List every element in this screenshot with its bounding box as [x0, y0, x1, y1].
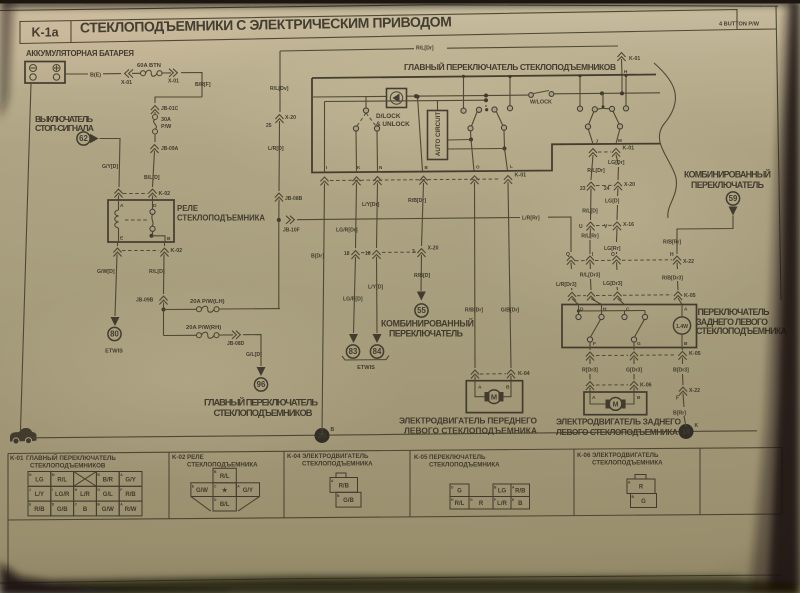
- junction JB-09A: [150, 145, 158, 153]
- K-05 bottom row: [589, 348, 591, 351]
- B[Dr3] to ground 18: [679, 387, 687, 395]
- fuse 30A P/W: [153, 115, 158, 120]
- relay connector K-02 bottom: [117, 242, 119, 246]
- K-05 row dashed: [577, 295, 586, 297]
- car icon: [10, 428, 37, 442]
- connector K-06: [586, 382, 594, 390]
- internal bus lower: [325, 100, 487, 101]
- front motor symbol: [485, 392, 490, 401]
- connector X-20 pin 25: [275, 115, 283, 123]
- connector K-04: [471, 370, 479, 378]
- AUTO CIRCUIT feed from bus: [437, 101, 439, 111]
- junction JB-09B: [159, 296, 167, 304]
- left rocker switch unit: [463, 76, 465, 108]
- W/LOCK switch: [529, 93, 534, 98]
- right rocker switch unit (J M): [579, 76, 581, 106]
- connector X-01 left: [125, 69, 133, 77]
- ground 25: [315, 428, 330, 443]
- right page border rule: [776, 6, 781, 300]
- relay switch: [152, 200, 154, 209]
- legend K-01 pin grid: [28, 472, 51, 487]
- internal bus upper: [312, 95, 386, 98]
- D/LOCK & UNLOCK icon: [387, 89, 407, 108]
- wire battery to fuse 60A: [65, 73, 88, 75]
- rear motor box: [584, 392, 647, 415]
- G/W[D] wire down to 80: [115, 255, 117, 317]
- front motor box: [466, 381, 522, 413]
- pin B lead: [418, 97, 423, 171]
- relay connector K-02 top: [114, 189, 122, 197]
- K-01 J M chevrons: [589, 149, 597, 157]
- wire to B/R[F] corner: [181, 73, 202, 98]
- 1.4W lamp: [681, 305, 683, 318]
- K column LG/R: [356, 183, 357, 248]
- R/L[D] wire down: [163, 255, 166, 295]
- page ref 80 ETWIS: [108, 327, 121, 340]
- M column LG: [616, 155, 619, 165]
- page ref 62: [77, 132, 90, 145]
- title box K-1a: [20, 10, 737, 44]
- fuse 20A P/W(LH): [164, 308, 197, 310]
- wire R/L[Dr] top horizontal: [280, 49, 414, 51]
- N column L/Y: [377, 183, 378, 248]
- junction JB-08B: [275, 193, 283, 201]
- bottom ground rail: [33, 431, 757, 438]
- pin K lead: [355, 131, 358, 171]
- wire down-left to fuse 30A column: [155, 97, 202, 103]
- battery: [25, 62, 65, 84]
- legend K-02 relay connector drawing: [213, 468, 236, 483]
- ETWIS bracket under 83 84: [342, 356, 389, 360]
- connector K-01 row: [320, 177, 328, 185]
- junction JB-10F + wire L/R[Rr] to right: [286, 216, 294, 224]
- J column R/L: [591, 155, 593, 180]
- page top rule: [0, 5, 778, 11]
- legend K-05 drawing: [450, 484, 469, 497]
- lock rocker switch (left): [365, 96, 367, 108]
- torn right edge curve: [654, 63, 676, 218]
- B column R/B to 55: [422, 183, 424, 246]
- junction JB-08D: [232, 331, 240, 339]
- legend K-04 drawing: [336, 473, 346, 478]
- X-22 row dashed + label: [575, 260, 585, 262]
- AUTO CIRCUIT box: [428, 111, 448, 160]
- pin N lead: [376, 131, 379, 171]
- L column G/B[Dr]: [508, 182, 511, 368]
- B[Dr] ground wire from pin I: [322, 184, 325, 436]
- page bottom edge line: [0, 575, 782, 583]
- legend K-06 drawing: [635, 475, 646, 480]
- relay coil: [118, 200, 120, 210]
- rear left switch box: [562, 305, 697, 348]
- connector X-01 right: [169, 69, 177, 77]
- wire from 62 to G/Y[D]: [100, 139, 121, 188]
- fuse 60A BTN: [141, 71, 146, 76]
- rear switch internals: [578, 305, 580, 312]
- branch to fuse 20A P/W(RH): [163, 310, 165, 336]
- connector K-01 H chevron: [617, 53, 625, 61]
- main switch box outline: [312, 78, 660, 173]
- pin I lead: [324, 102, 326, 172]
- rocker1 pin leads to O and L: [470, 131, 473, 140]
- relay РЕЛЕ СТЕКЛОПОДЪЕМНИКА box: [108, 200, 174, 242]
- junction JB-01C: [151, 106, 159, 114]
- legend outer box: [8, 448, 782, 454]
- O column R/B[Dr] to front motor: [474, 182, 477, 368]
- ground 18: [679, 424, 694, 439]
- battery ground drop (left long wire): [21, 83, 32, 430]
- page ref 96: [254, 378, 267, 391]
- riser wire R/L[Dv] from top: [279, 51, 281, 112]
